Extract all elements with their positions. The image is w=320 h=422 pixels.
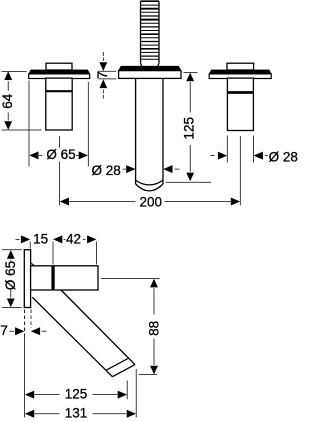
dimension diameter 65 (wall flange, side) <box>2 250 22 308</box>
svg-text:15: 15 <box>33 231 48 246</box>
angled spout upper edge <box>32 297 112 377</box>
svg-text:Ø 28: Ø 28 <box>92 163 121 178</box>
svg-text:7: 7 <box>0 323 8 338</box>
left handle flange <box>29 70 90 79</box>
chamfer at body/flange top joint <box>31 263 35 266</box>
right handle cap <box>227 63 254 70</box>
right handle cylinder <box>227 78 253 130</box>
svg-text:125: 125 <box>65 387 88 402</box>
horizontal body (side) <box>31 266 98 290</box>
dimension diameter 65 (left) <box>29 81 88 167</box>
dimension 7 (spout flange thickness) <box>98 52 117 99</box>
spout cylinder (front view) <box>136 78 163 190</box>
dimension 125 (spout height) <box>166 72 212 182</box>
left handle cylinder <box>46 78 72 130</box>
right handle flange <box>209 70 271 79</box>
dimension diameter 28 (right handle) <box>211 136 269 163</box>
svg-text:200: 200 <box>140 194 163 209</box>
svg-text:131: 131 <box>65 405 88 420</box>
svg-text:7: 7 <box>95 71 110 79</box>
svg-text:Ø 28: Ø 28 <box>269 149 298 164</box>
dimension 200 (hole spacing) <box>59 136 240 205</box>
svg-text:125: 125 <box>182 117 197 140</box>
svg-text:64: 64 <box>0 93 15 109</box>
dimension 64 (left) <box>2 72 42 131</box>
dimension 88 (outlet drop) <box>101 278 160 374</box>
spout escutcheon flange (front view) <box>119 66 181 78</box>
joint band on body <box>51 266 54 289</box>
svg-text:88: 88 <box>147 321 162 336</box>
aerator band line <box>106 358 129 370</box>
svg-text:Ø 65: Ø 65 <box>3 261 18 290</box>
dimension diameter 28 (spout) <box>123 168 180 170</box>
wall escutcheon flange (side) <box>24 250 30 308</box>
svg-text:42: 42 <box>66 231 81 246</box>
dimension 125 (bottom) <box>25 310 128 418</box>
dimension 7 (wall flange thickness) <box>10 310 47 338</box>
dimensions 15 and 42 <box>16 239 97 264</box>
left handle cap <box>46 63 72 70</box>
svg-text:Ø 65: Ø 65 <box>46 147 75 162</box>
left handle ring line <box>46 90 72 92</box>
right handle ring line <box>227 91 253 94</box>
spout end face <box>112 365 135 377</box>
angled spout lower edge <box>61 290 135 365</box>
threaded rod (spout shank) <box>141 1 160 67</box>
dimension 131 (bottom) <box>35 369 137 417</box>
